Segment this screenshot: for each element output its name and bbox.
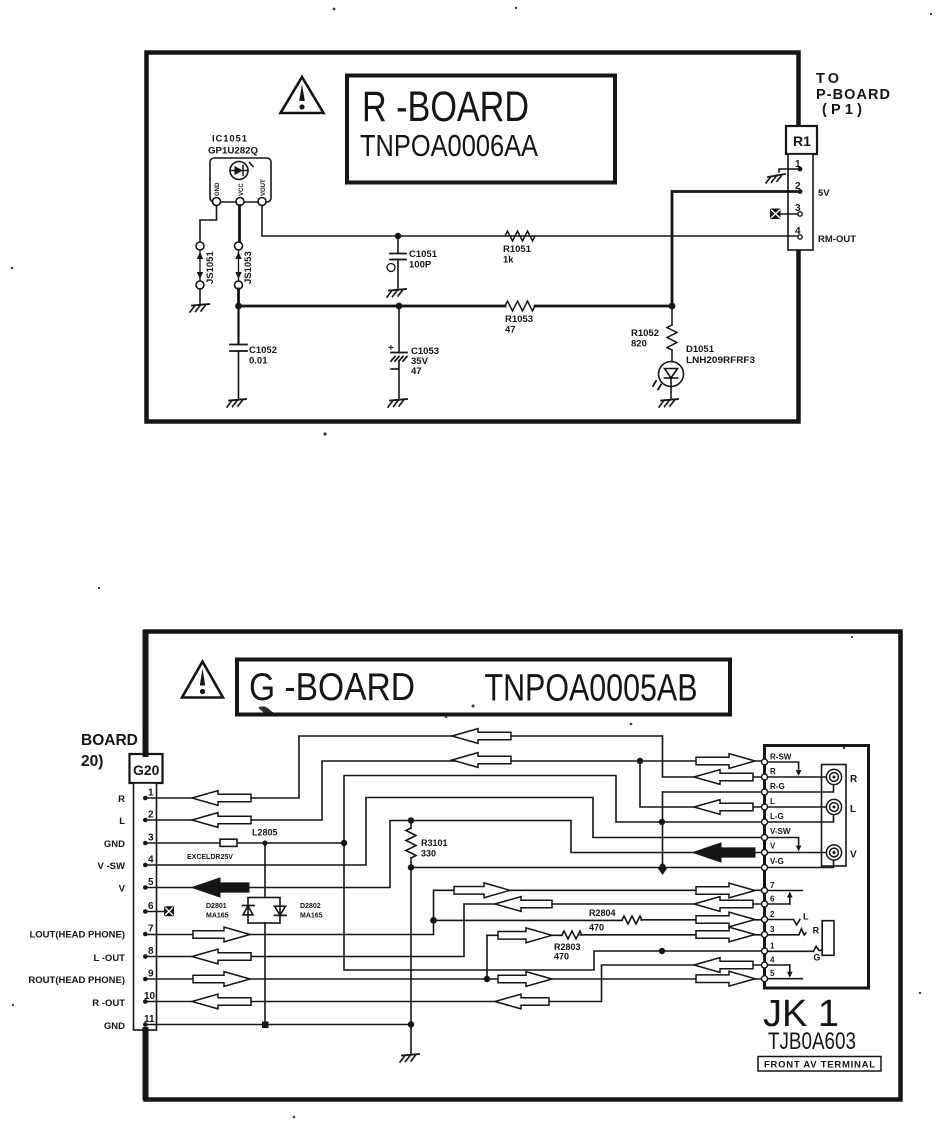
svg-text:R1: R1 <box>793 133 811 149</box>
svg-text:V: V <box>770 842 776 851</box>
svg-text:R1051: R1051 <box>503 244 532 255</box>
headphone jack body <box>822 921 834 956</box>
node L-G ground bus <box>659 819 665 825</box>
wire V-G to jack sleeve <box>768 861 834 868</box>
svg-text:330: 330 <box>421 849 436 859</box>
wire pin2 L to R-SW <box>145 761 762 820</box>
svg-text:R-SW: R-SW <box>770 753 792 762</box>
wire JK6 internal <box>768 903 790 905</box>
signal arrow right (pin9 mid) <box>498 972 552 987</box>
JK1 pin V-SW <box>762 835 768 841</box>
wire JS1051 to ground <box>199 289 201 303</box>
wire pin7 LOUT <box>145 920 433 934</box>
svg-text:47: 47 <box>411 366 422 377</box>
signal arrow right (JK7) <box>696 883 755 898</box>
svg-text:6: 6 <box>148 901 154 912</box>
svg-text:RM-OUT: RM-OUT <box>818 234 856 245</box>
node C1053 junction <box>396 303 403 310</box>
RCA jack V <box>826 845 841 860</box>
resistor R3101 (vertical) <box>406 821 416 868</box>
capacitor C1053 (electrolytic) <box>388 306 407 398</box>
svg-text:R: R <box>813 926 820 936</box>
svg-text:GND: GND <box>215 182 221 196</box>
signal arrow right (JK7 mid) <box>454 883 510 898</box>
JK1 pin L-G <box>762 819 768 825</box>
wire V row to jack <box>768 852 826 854</box>
JK1 pin R <box>762 774 768 780</box>
wire ground bus vertical <box>662 792 664 863</box>
wire JS1053 to 5V rail <box>237 289 240 306</box>
wire L-G to jack sleeve <box>768 816 834 822</box>
svg-text:L: L <box>119 816 125 827</box>
signal arrow left (pin10 mid) <box>495 994 549 1009</box>
svg-text:R -OUT: R -OUT <box>92 998 125 1009</box>
G20 bottom thick wire <box>143 1030 149 1097</box>
svg-text:1: 1 <box>148 788 154 799</box>
signal arrow left (pin1 R) <box>192 791 251 806</box>
svg-text:+: + <box>388 343 394 354</box>
node pin9 branch <box>484 976 490 982</box>
svg-text:ROUT(HEAD PHONE): ROUT(HEAD PHONE) <box>28 975 125 986</box>
ink smudge <box>258 706 278 716</box>
wire pin6 stub <box>145 911 164 913</box>
svg-text:5V: 5V <box>818 188 830 199</box>
wire R2804 row to JK 2 <box>434 919 763 922</box>
svg-text:MA165: MA165 <box>300 913 323 920</box>
diode pair D2801/D2802 stub to GND line <box>264 843 266 898</box>
node chassis ground junction <box>408 1021 414 1027</box>
resistor R1053 <box>505 301 535 311</box>
node R3101 top <box>408 817 414 823</box>
warning triangle <box>281 77 324 113</box>
svg-text:4: 4 <box>770 956 775 965</box>
warning triangle G <box>182 662 223 698</box>
JK1 pin R-SW <box>762 759 768 765</box>
wire branch to JK L <box>640 761 762 807</box>
svg-text:G -BOARD: G -BOARD <box>249 666 415 709</box>
JK1 pin V-G <box>762 865 768 871</box>
wire LOUT up to JK7 row <box>434 890 763 920</box>
svg-text:P-BOARD: P-BOARD <box>816 87 890 103</box>
svg-text:R1052: R1052 <box>631 328 659 339</box>
JK1 pin 7 <box>762 888 768 894</box>
JK1 pin 3 <box>762 932 768 938</box>
svg-text:VCC: VCC <box>239 183 245 196</box>
svg-text:1k: 1k <box>503 255 514 266</box>
svg-text:470: 470 <box>554 952 569 962</box>
ground (G-board chassis) <box>400 1054 419 1062</box>
svg-text:L2805: L2805 <box>252 828 278 838</box>
svg-text:4: 4 <box>148 855 154 866</box>
svg-text:TO: TO <box>816 71 839 87</box>
svg-text:L-G: L-G <box>770 812 784 821</box>
capacitor C1052 <box>230 306 247 398</box>
signal arrow left (JK4) <box>694 958 753 973</box>
svg-text:2: 2 <box>770 910 775 919</box>
svg-text:L -OUT: L -OUT <box>94 953 126 964</box>
wire V-G row <box>411 867 762 869</box>
svg-text:L: L <box>803 912 809 922</box>
svg-text:EXCELDR25V: EXCELDR25V <box>187 854 233 861</box>
connector JK1 box <box>765 746 869 989</box>
wire GND up-over to L-G <box>344 776 762 844</box>
node VCC rail left <box>235 303 242 310</box>
jumper JS1053 <box>235 242 243 289</box>
svg-text:5: 5 <box>770 969 775 978</box>
svg-text:R-G: R-G <box>770 782 785 791</box>
connector R1 pin strip <box>788 154 813 250</box>
JK1 pin V <box>762 850 768 856</box>
IC1051 photodiode circle <box>230 162 253 180</box>
switch arrow 7-6 <box>789 897 791 905</box>
svg-text:L: L <box>770 797 775 806</box>
svg-text:L: L <box>850 804 856 815</box>
switch arrow 4-5 <box>789 965 791 972</box>
wire pin11 GND row <box>145 1024 411 1026</box>
signal arrow right (pin9 ROUT) <box>193 972 250 987</box>
signal arrow right (JK 3) <box>696 927 755 942</box>
FRONT AV TERMINAL box <box>758 1057 881 1072</box>
wire GND branch down to audio ground <box>344 843 762 970</box>
svg-text:JS1051: JS1051 <box>205 251 216 284</box>
wire 5V rail from R1 pin2 <box>672 192 798 307</box>
svg-text:470: 470 <box>589 923 604 933</box>
signal arrow left (pin10 R-OUT) <box>192 994 251 1009</box>
resistor R2803 <box>562 931 582 939</box>
RCA jack R <box>826 769 841 784</box>
JK1 pin R-G <box>762 789 768 795</box>
wire R-G to jack sleeve <box>768 786 834 792</box>
signal arrow right (R2803 row mid) <box>498 928 552 943</box>
wire VCC thick <box>238 206 241 243</box>
wire pin10 R-OUT to JK 4 <box>145 965 762 1002</box>
resistor R1052 (vertical) <box>667 306 677 362</box>
wire VOUT to R1 pin 4 <box>262 206 798 237</box>
svg-text:GND: GND <box>104 1021 125 1032</box>
svg-text:7: 7 <box>148 924 154 935</box>
IC1051 IR receiver box <box>210 158 271 202</box>
svg-text:820: 820 <box>631 339 647 350</box>
svg-text:FRONT AV TERMINAL: FRONT AV TERMINAL <box>764 1060 875 1071</box>
wire pin9 branch up to R2803 row <box>486 935 488 979</box>
signal arrow left (pin8 L-OUT) <box>192 949 251 964</box>
svg-text:LOUT(HEAD PHONE): LOUT(HEAD PHONE) <box>29 930 125 941</box>
LED D1051 <box>653 362 684 390</box>
signal arrow left (H1 top) <box>452 729 511 744</box>
svg-text:1: 1 <box>770 942 775 951</box>
signal arrow left (JK6) <box>694 897 753 912</box>
svg-text:9: 9 <box>148 969 154 980</box>
wire R3101 to GND row vertical <box>410 868 412 1025</box>
svg-text:R2804: R2804 <box>589 908 616 918</box>
wire R-G row <box>663 791 763 793</box>
wire pin3 GND to L2805 <box>145 842 344 844</box>
wire JK7 internal <box>768 890 802 892</box>
node GND branch <box>341 840 347 846</box>
wire pin9 ROUT to JK 5 <box>145 978 762 980</box>
svg-text:TNPOA0006AA: TNPOA0006AA <box>360 128 538 163</box>
IC pin VCC circle <box>236 198 244 206</box>
svg-text:TNPOA0005AB: TNPOA0005AB <box>485 668 698 710</box>
wire 5V rail horizontal <box>239 305 673 308</box>
signal arrow right (R-SW) <box>696 754 755 769</box>
svg-text:BOARD: BOARD <box>81 732 138 749</box>
wire pin1 R to JK R <box>145 736 762 798</box>
svg-text:0.01: 0.01 <box>249 356 268 367</box>
connector G20 box <box>130 754 163 783</box>
svg-text:8: 8 <box>148 946 154 957</box>
filled arrow left (pin5 V) <box>192 878 249 897</box>
node diode pair on GND row <box>262 1022 269 1029</box>
svg-text:VOUT: VOUT <box>261 179 267 196</box>
svg-text:R1053: R1053 <box>505 314 533 325</box>
node C1051 junction <box>395 233 401 239</box>
svg-text:R: R <box>118 794 125 805</box>
wire D1051 to ground <box>670 387 672 399</box>
IC pin VOUT circle <box>258 198 266 206</box>
svg-text:R: R <box>850 774 858 785</box>
IC pin GND circle <box>213 198 221 206</box>
svg-text:GP1U282Q: GP1U282Q <box>208 146 258 157</box>
filled arrow left (JK V) <box>693 843 755 862</box>
wire JK4 internal <box>768 964 790 966</box>
svg-text:TJB0A603: TJB0A603 <box>768 1028 856 1055</box>
signal arrow left (JK L) <box>694 800 753 815</box>
ground (D1051) <box>659 399 678 407</box>
R-board outer box <box>147 53 799 422</box>
G-board outer box <box>146 632 901 1100</box>
svg-text:R -BOARD: R -BOARD <box>362 83 529 131</box>
wire GND pin to JS1051 <box>200 206 217 243</box>
signal arrow left (JK R) <box>694 770 753 785</box>
ground (C1053) <box>388 399 407 407</box>
svg-text:IC1051: IC1051 <box>212 134 248 145</box>
svg-text:GND: GND <box>104 839 125 850</box>
svg-text:D2802: D2802 <box>300 903 321 910</box>
svg-text:R: R <box>770 767 776 776</box>
JK1 pin 2 <box>762 917 768 923</box>
headphone contact G (JK1pin) <box>768 946 822 951</box>
svg-text:V-G: V-G <box>770 857 784 866</box>
connector G20 pin strip <box>134 783 157 1030</box>
svg-text:6: 6 <box>770 895 775 904</box>
ground (R1 pin1) <box>766 174 785 183</box>
svg-text:MA165: MA165 <box>206 913 229 920</box>
svg-text:LNH209RFRF3: LNH209RFRF3 <box>686 355 755 366</box>
wire R row to jack <box>768 776 826 778</box>
signal arrow right (pin7 LOUT) <box>193 927 250 942</box>
node R1052 junction <box>669 303 676 310</box>
wire pin5 V to JK V <box>145 821 762 888</box>
ground (C1051) <box>387 289 406 297</box>
svg-text:7: 7 <box>770 881 775 890</box>
JK1 pin 4 <box>762 962 768 968</box>
RCA jack L <box>826 799 841 814</box>
R-board title box <box>347 76 615 183</box>
headphone contact L (JK2) <box>768 920 800 926</box>
signal arrow left (H2) <box>452 753 511 768</box>
connector R1 box <box>786 126 817 154</box>
svg-text:C1052: C1052 <box>249 345 277 356</box>
svg-text:V: V <box>850 850 857 861</box>
signal arrow left (JK6 mid) <box>495 897 552 912</box>
jumper JS1051 <box>196 242 204 289</box>
wire R-SW switch <box>768 762 799 769</box>
svg-text:100P: 100P <box>409 260 432 271</box>
headphone contact R (JK3) <box>768 929 806 935</box>
svg-text:V: V <box>119 884 126 895</box>
node V-G blob arrow <box>658 864 667 876</box>
wire pin8 L-OUT to JK 6 <box>145 904 762 957</box>
wire pin3 stub <box>781 213 798 215</box>
signal arrow right (JK2) <box>696 912 755 927</box>
JK1 pin 6 <box>762 901 768 907</box>
svg-text:20): 20) <box>81 753 103 770</box>
wire R2803 row to JK 3 <box>487 934 762 937</box>
node R-SW branch <box>637 758 643 764</box>
node audio ground at JK1 pin1 <box>659 948 665 954</box>
svg-text:C1051: C1051 <box>409 249 438 260</box>
svg-text:R3101: R3101 <box>421 838 448 848</box>
svg-text:5: 5 <box>148 877 154 888</box>
svg-text:V -SW: V -SW <box>98 861 125 872</box>
svg-text:2: 2 <box>148 810 154 821</box>
RCA jack inner box <box>822 765 847 867</box>
svg-text:D2801: D2801 <box>206 903 227 910</box>
wire V-SW switch <box>768 838 799 845</box>
JK1 pin L <box>762 804 768 810</box>
wire pin4 V-SW to JK V-SW <box>145 798 762 866</box>
resistor R1051 <box>505 231 535 241</box>
node D2801 stub <box>262 840 267 845</box>
G-board title box <box>237 660 730 715</box>
resistor R2804 <box>622 916 642 924</box>
svg-text:JS1053: JS1053 <box>243 251 254 284</box>
wire diode pair to GND row <box>264 923 266 1025</box>
svg-text:V-SW: V-SW <box>770 827 791 836</box>
diode pair box <box>243 898 287 924</box>
svg-text:G20: G20 <box>133 762 160 778</box>
svg-text:R2803: R2803 <box>554 942 581 952</box>
svg-text:3: 3 <box>770 925 775 934</box>
svg-text:3: 3 <box>148 833 154 844</box>
JK1 pin 5 <box>762 976 768 982</box>
no-connection symbol (G20 pin6) <box>164 906 174 916</box>
svg-text:D1051: D1051 <box>686 344 715 355</box>
node R3101 bottom <box>408 864 414 870</box>
svg-text:G: G <box>813 953 820 963</box>
JK1 pin 1 <box>762 948 768 954</box>
capacitor C1051 <box>387 236 406 288</box>
wire to chassis ground <box>410 1025 412 1054</box>
svg-text:47: 47 <box>505 325 516 336</box>
wire JK5 internal <box>768 978 802 980</box>
inductor L2805 <box>220 839 237 846</box>
no-connection symbol (R1 pin3) <box>770 209 781 220</box>
ground (JS1051) <box>190 304 209 312</box>
signal arrow left (pin2 L) <box>192 813 251 828</box>
wire L row to jack <box>768 806 826 808</box>
node LOUT branch <box>430 917 437 924</box>
wire pin1 to ground <box>779 169 798 172</box>
signal arrow right (JK5) <box>696 971 755 986</box>
ground (C1052) <box>227 399 246 407</box>
G20 top thick wire <box>143 633 149 754</box>
